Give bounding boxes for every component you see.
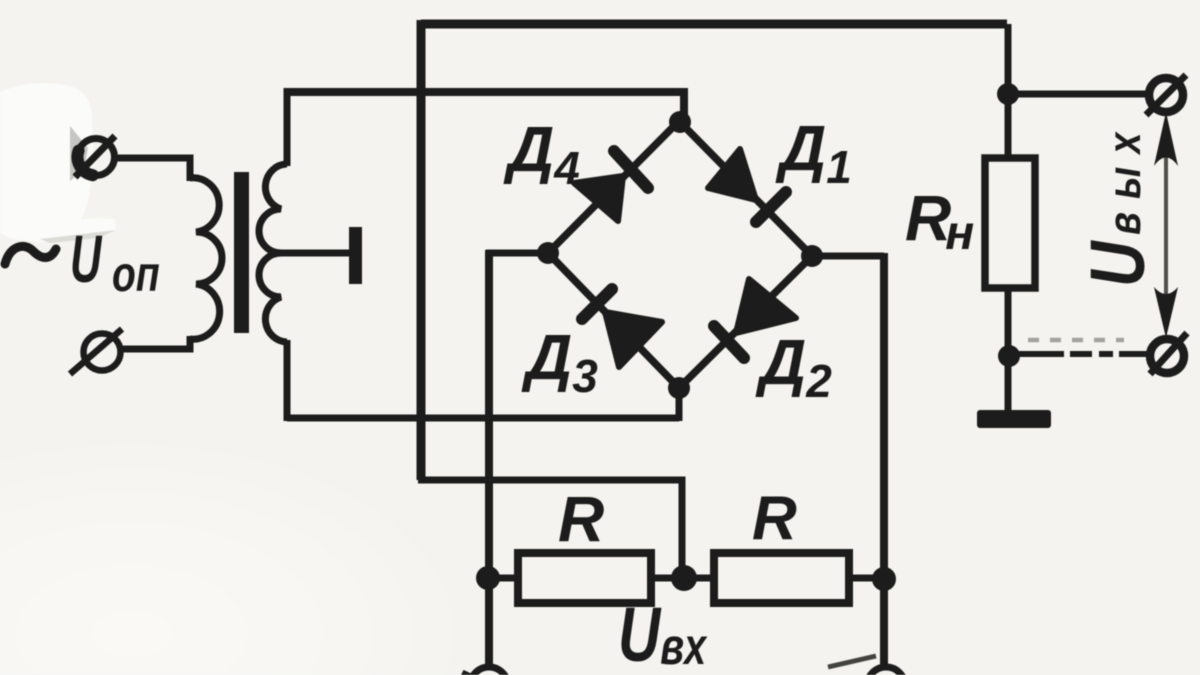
wire secondary top to bridge top [287,92,684,121]
secondary top lead [284,88,291,166]
bridge edges [548,121,812,388]
wire bridge bottom stub [676,384,683,421]
label Uvyh (rotated) [1074,120,1160,287]
junction dot R-row right [872,567,896,591]
wire right node to x884 [812,253,884,260]
node right [801,245,823,267]
junction dot Rn top [997,83,1019,105]
center tap T-bar [349,227,362,284]
gray smudge under whiteout [40,230,116,243]
ground [977,410,1051,428]
terminal bottom left (cut off) [462,667,508,675]
wire vertical x421 [417,20,426,480]
primary winding [190,178,222,339]
transformer core [234,172,249,333]
terminal right bottom [1150,333,1187,374]
wire lower output line [1012,351,1152,357]
wire vertical x884 down to bottom terminal [880,253,888,666]
wire secondary bottom rail y418 [287,415,679,422]
diode D2 [714,279,796,358]
wire left node to x487 [486,250,548,257]
diode D3 [582,289,662,367]
svg-text:R: R [558,483,604,555]
gray smudge near terminal [70,126,88,181]
transformer T1 [114,88,362,421]
terminal left bottom [70,329,122,374]
wire edge L-T [548,121,679,253]
wire edge R-B [679,256,812,388]
primary top lead [114,158,190,181]
wire Rn top to output terminal [1008,91,1150,98]
wire R-row right [848,575,884,582]
wire vertical x487 down to bottom terminal [485,250,493,666]
wire y478 to middle resistor junction [418,480,682,578]
diode D1 [708,149,786,222]
secondary bottom lead [284,340,291,421]
center tap wire [278,250,350,257]
junction dot R-row middle [671,565,697,591]
terminal right top [1146,75,1186,115]
diode D4 [574,151,648,221]
resistor R right [714,553,849,603]
resistor Rn [985,158,1035,288]
label Uvx [618,592,708,675]
terminal left top [75,136,115,177]
node top [669,111,691,133]
junction dot Rn bottom [998,345,1020,367]
wire Rn top vertical [1005,24,1012,158]
junction dot R-row left [476,566,500,590]
wire edge L-B [548,253,679,388]
node bottom [668,377,690,399]
wire Rn bottom vertical [1005,288,1012,366]
svg-text:оп: оп [112,245,160,302]
whiteout blob top-left [0,83,93,241]
wire R-row middle [650,575,715,582]
ghost dashes above lower output line [1028,338,1124,343]
Uvyh measurement arrow [1154,112,1178,338]
svg-text:R: R [752,484,797,553]
resistor R left [518,553,651,603]
node left [537,242,559,264]
wire R-row left [486,575,519,582]
label ~Uop [5,222,160,303]
secondary winding [259,164,287,342]
top wire [421,20,1007,29]
primary bottom lead [121,336,190,349]
whiteout blob above tilde [25,218,116,242]
wire ground stub [1005,360,1012,412]
svg-text:U: U [70,222,102,297]
wire edge T-R [679,121,812,256]
terminal bottom right (cut off) [828,656,905,675]
